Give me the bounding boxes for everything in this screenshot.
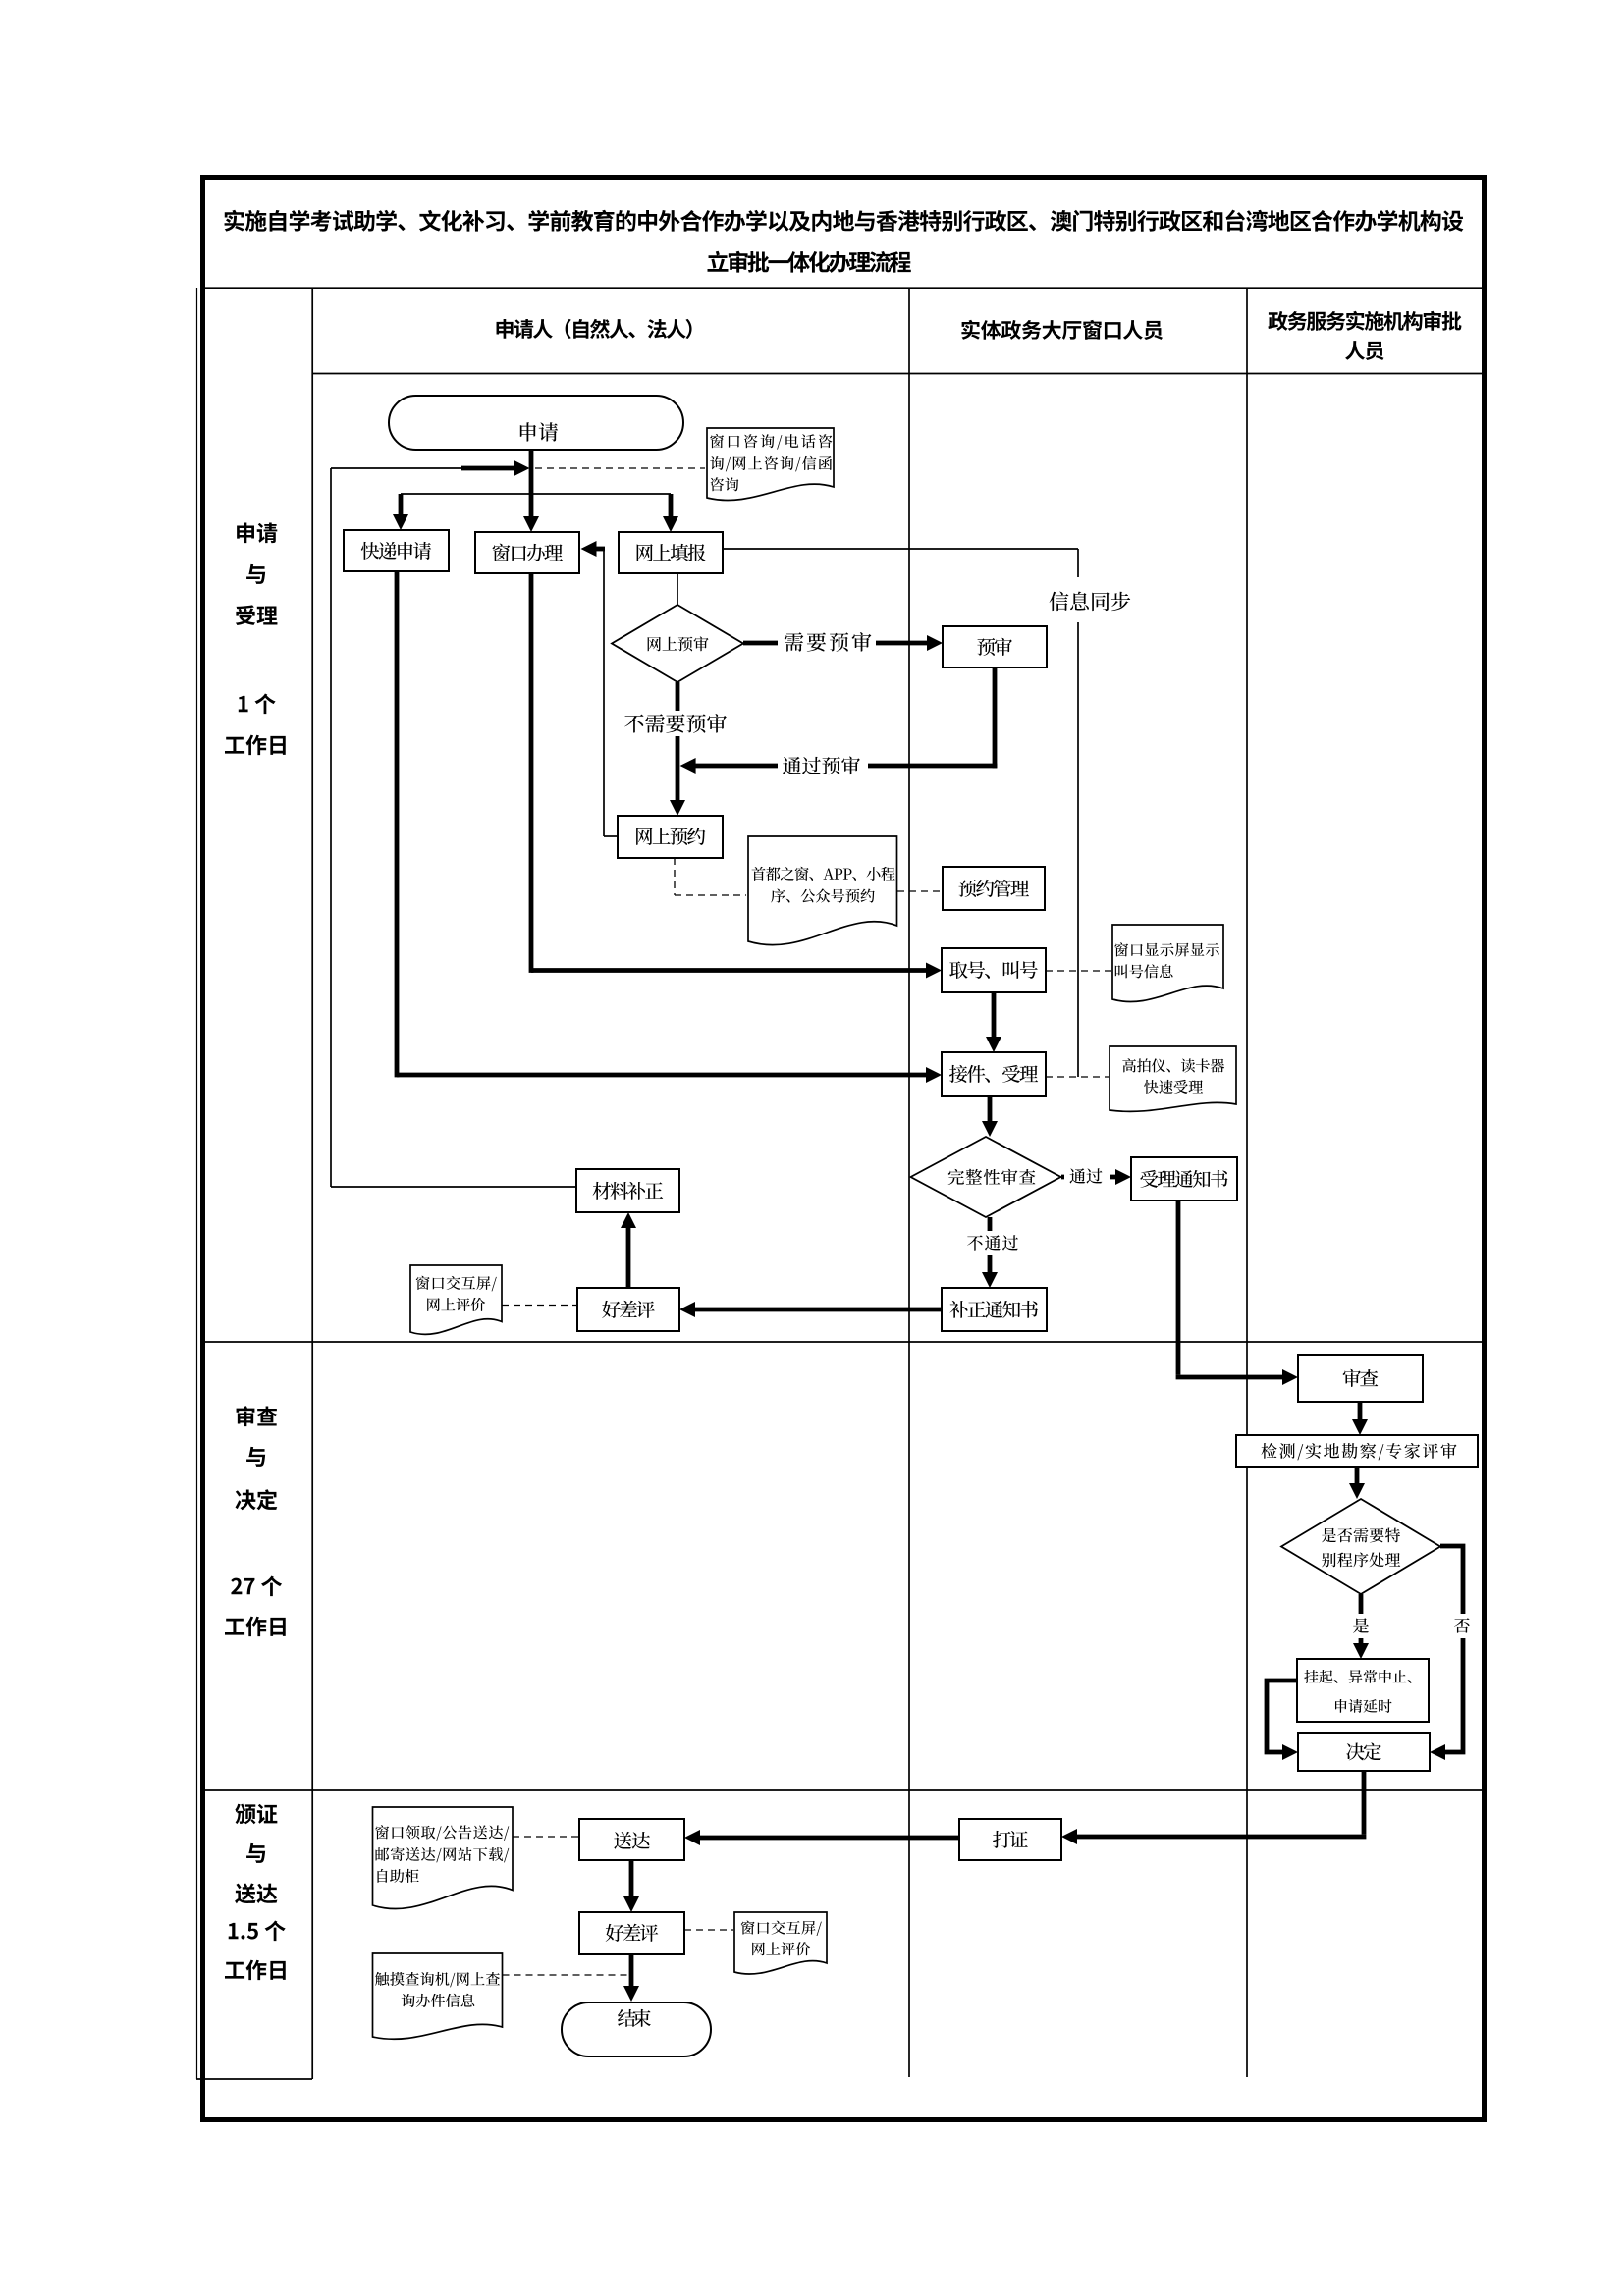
wire dashed note5 to rating bbox=[502, 1305, 576, 1307]
terminator end bbox=[562, 2002, 711, 2056]
terminator end text bbox=[618, 2009, 651, 2027]
note consult channels text bbox=[710, 434, 832, 491]
table left doubled thin edge bbox=[196, 288, 198, 2079]
box take number text bbox=[949, 961, 1038, 979]
box rating2 text bbox=[606, 1924, 659, 1942]
box accept notice bbox=[1131, 1157, 1237, 1201]
box supplement bbox=[576, 1169, 679, 1212]
box accept notice text bbox=[1140, 1170, 1227, 1188]
label yes bbox=[1353, 1618, 1369, 1632]
title line 1 bbox=[225, 210, 1464, 232]
wire special no loop bbox=[1430, 1546, 1463, 1760]
stage2 label bbox=[225, 1406, 286, 1636]
wire dashed note2 to manage bbox=[897, 890, 941, 892]
box correction notice bbox=[942, 1288, 1047, 1331]
wire print to deliver bbox=[684, 1830, 959, 1845]
wire correction to rating bbox=[679, 1302, 942, 1317]
title line 2 bbox=[708, 251, 911, 273]
wire special yes down bbox=[1353, 1594, 1369, 1659]
stage column bottom line bbox=[196, 2078, 312, 2080]
label fail bbox=[967, 1235, 1018, 1251]
wire branch horizontal bbox=[401, 493, 671, 495]
wire deliver to rating2 bbox=[623, 1860, 639, 1912]
wire window handle to take number bbox=[531, 573, 942, 979]
wire need precheck arrow bbox=[743, 635, 943, 651]
box reserve manage text bbox=[958, 880, 1029, 897]
wire review to inspect bbox=[1352, 1402, 1368, 1435]
box print cert bbox=[959, 1819, 1061, 1860]
label need precheck bbox=[785, 632, 872, 652]
note rating screen 2 bbox=[734, 1912, 827, 1974]
label info sync bbox=[1050, 592, 1131, 612]
note call display bbox=[1112, 925, 1223, 1002]
wire rating2 to end bbox=[623, 1954, 639, 2002]
note deliver channels bbox=[373, 1807, 514, 1909]
header row bottom line bbox=[312, 373, 1483, 375]
box window handle text bbox=[493, 544, 563, 561]
wire reserve to window handle bbox=[581, 541, 619, 836]
swimlane divider hall/approver bbox=[1246, 288, 1248, 2077]
note query info bbox=[373, 1953, 503, 2039]
note reserve channels text bbox=[752, 867, 895, 903]
box rating2 bbox=[579, 1912, 684, 1954]
terminator apply bbox=[389, 396, 683, 450]
note call display text bbox=[1114, 942, 1219, 978]
box accept text bbox=[949, 1065, 1038, 1083]
title row bottom line bbox=[201, 287, 1483, 289]
note deliver channels text bbox=[375, 1825, 509, 1883]
header applicant bbox=[497, 319, 692, 339]
wire accept to integrity check bbox=[982, 1096, 998, 1137]
box express apply bbox=[344, 530, 449, 571]
stage column divider bbox=[311, 288, 313, 2079]
label pass bg bbox=[1064, 1164, 1110, 1189]
wire fill to precheck diamond bbox=[677, 573, 678, 606]
label no need precheck bg bbox=[622, 711, 730, 736]
box correction notice text bbox=[949, 1301, 1038, 1318]
wire inspect to special diamond bbox=[1349, 1467, 1365, 1499]
stage3 label bbox=[225, 1804, 286, 1981]
label info sync bg bbox=[1043, 577, 1138, 622]
wire dashed reserve to note2 bbox=[675, 858, 746, 895]
stage1 label bbox=[225, 523, 286, 756]
box reserve manage bbox=[943, 867, 1045, 910]
box review text bbox=[1343, 1369, 1379, 1387]
box express apply text bbox=[361, 542, 431, 560]
label no bbox=[1454, 1618, 1470, 1633]
wire feedback up right arrow bbox=[331, 460, 576, 1187]
label pass bbox=[1069, 1168, 1102, 1183]
box decide bbox=[1298, 1733, 1430, 1771]
box online reserve bbox=[618, 816, 723, 858]
box suspend bbox=[1297, 1659, 1429, 1722]
box precheck text bbox=[977, 638, 1012, 656]
wire dashed to consult note bbox=[535, 467, 705, 469]
box inspect bbox=[1236, 1435, 1478, 1467]
box suspend text bbox=[1304, 1670, 1411, 1713]
diamond special process bbox=[1281, 1499, 1440, 1594]
section divider 1 bbox=[201, 1341, 1483, 1343]
outer thick border bbox=[203, 178, 1485, 2120]
label pass precheck bbox=[783, 756, 860, 774]
label yes bg bbox=[1349, 1614, 1374, 1638]
note rating screen 1 text bbox=[416, 1276, 497, 1311]
header approver line2 bbox=[1345, 341, 1383, 360]
box window handle bbox=[475, 532, 579, 573]
note query info text bbox=[375, 1972, 500, 2007]
box deliver text bbox=[614, 1832, 650, 1849]
note consult channels bbox=[707, 428, 834, 501]
box precheck bbox=[943, 626, 1047, 667]
label need precheck bg bbox=[778, 630, 876, 655]
wire notice to review bbox=[1176, 1201, 1298, 1385]
wire suspend left loop bbox=[1267, 1681, 1298, 1760]
section divider 2 bbox=[201, 1789, 1483, 1791]
box supplement text bbox=[593, 1182, 664, 1200]
wire dashed number to note3 bbox=[1046, 970, 1111, 972]
box online fill bbox=[619, 532, 723, 573]
wire dashed note8 to line bbox=[503, 1974, 634, 1976]
wire dashed rating2 to note7 bbox=[684, 1929, 733, 1931]
box rating1 bbox=[577, 1288, 679, 1331]
box rating1 text bbox=[602, 1301, 655, 1318]
note rating screen 1 bbox=[410, 1265, 502, 1334]
diamond special process text bbox=[1322, 1528, 1400, 1568]
terminator apply text bbox=[520, 422, 558, 441]
label fail bg bbox=[965, 1231, 1022, 1255]
wire branch down to express bbox=[393, 494, 408, 530]
header approver line1 bbox=[1268, 311, 1461, 331]
diamond integrity check bbox=[911, 1137, 1061, 1217]
label pass precheck bg bbox=[778, 754, 868, 778]
wire dashed note6 to deliver bbox=[513, 1836, 578, 1838]
note fast accept text bbox=[1122, 1058, 1224, 1094]
swimlane divider applicant/hall bbox=[908, 288, 910, 2077]
diamond online precheck text bbox=[648, 636, 709, 651]
header hall staff bbox=[961, 320, 1163, 340]
note rating screen 2 text bbox=[741, 1920, 822, 1955]
note fast accept bbox=[1110, 1046, 1236, 1111]
wire online fill to sync bbox=[723, 549, 1078, 1077]
wire integrity fail down bbox=[982, 1217, 998, 1288]
wire integrity pass arrow bbox=[1061, 1169, 1131, 1185]
box online reserve text bbox=[636, 828, 705, 845]
wire express to accept bbox=[397, 571, 942, 1083]
wire dashed accept to note4 bbox=[1046, 1076, 1109, 1078]
box inspect text bbox=[1262, 1443, 1457, 1460]
box accept bbox=[942, 1052, 1046, 1096]
box deliver bbox=[579, 1819, 684, 1860]
box online fill text bbox=[637, 544, 706, 561]
label no bg bbox=[1450, 1614, 1475, 1638]
wire apply down to window bbox=[523, 450, 539, 532]
wire branch down to online fill bbox=[663, 494, 678, 532]
wire decide to print bbox=[1061, 1771, 1366, 1844]
wire diamond down to reserve bbox=[670, 682, 685, 816]
wire rating up to supplement bbox=[621, 1212, 636, 1288]
box decide text bbox=[1346, 1742, 1380, 1760]
wire precheck pass loop bbox=[680, 667, 998, 774]
wire take number to accept bbox=[986, 992, 1001, 1052]
label no need precheck bbox=[624, 714, 727, 733]
note reserve channels bbox=[748, 836, 897, 945]
box print cert text bbox=[993, 1831, 1028, 1848]
diamond online precheck bbox=[612, 605, 743, 682]
box review bbox=[1298, 1355, 1423, 1402]
box take number bbox=[942, 948, 1046, 992]
diamond integrity check text bbox=[948, 1169, 1036, 1185]
